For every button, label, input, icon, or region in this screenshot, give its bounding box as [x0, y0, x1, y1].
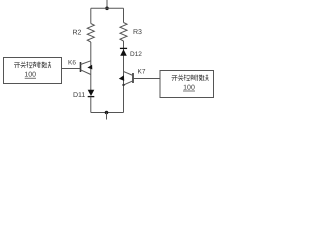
label left box line1 (CJK strokes)	[14, 62, 51, 68]
wire left branch middle	[90, 42, 92, 90]
wire bottom rail	[91, 112, 124, 114]
wire right branch middle	[123, 41, 125, 113]
diode D12	[120, 48, 127, 55]
resistor R3	[120, 23, 127, 42]
right box 开关控制模块 100	[160, 71, 214, 98]
wire left branch lower	[90, 97, 92, 113]
wire K6 base to left box	[62, 68, 81, 70]
wire left branch upper	[90, 8, 92, 23]
svg-text:100: 100	[24, 72, 36, 79]
svg-text:100: 100	[183, 85, 195, 92]
resistor R2	[87, 24, 94, 43]
left box 开关控制模块 100	[4, 58, 62, 84]
transistor K6	[81, 61, 93, 75]
svg-text:K6: K6	[68, 60, 76, 67]
label right box line1 (CJK strokes)	[172, 75, 209, 81]
wire K7 base to right box	[133, 78, 160, 80]
node bottom junction	[105, 111, 109, 115]
diode D11	[88, 90, 95, 97]
svg-text:K7: K7	[138, 69, 146, 76]
wire top rail	[91, 7, 124, 9]
wire right branch upper	[123, 8, 125, 22]
svg-text:D11: D11	[73, 92, 85, 99]
node top junction	[105, 7, 109, 11]
transistor K7	[119, 72, 133, 87]
wire bottom stub	[106, 113, 108, 120]
svg-text:R2: R2	[73, 30, 82, 37]
svg-text:R3: R3	[133, 29, 142, 36]
svg-text:D12: D12	[130, 51, 142, 58]
wire top supply stub	[106, 0, 108, 8]
